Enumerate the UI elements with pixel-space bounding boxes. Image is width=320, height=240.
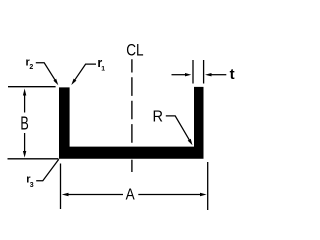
svg-text:2: 2: [29, 64, 33, 71]
dimension t: left tick: [192, 60, 194, 84]
arrow R: [188, 139, 193, 146]
dimension A: left extension line: [60, 164, 62, 210]
dimension t: right tick: [203, 60, 205, 84]
arrow r1: [71, 79, 76, 85]
dimension t: left line: [172, 74, 187, 76]
dimension B: bottom extension line: [8, 158, 59, 160]
dimension A: left arrow: [62, 193, 69, 196]
leader r2: [36, 63, 55, 80]
dimension t: right line: [211, 74, 227, 76]
svg-text:B: B: [20, 114, 28, 134]
svg-text:A: A: [126, 187, 135, 204]
dimension B: down arrow: [23, 151, 26, 158]
channel cross-section (U profile): [59, 87, 204, 159]
dimension A: right extension line: [207, 162, 209, 210]
svg-text:3: 3: [30, 182, 34, 189]
centerline dash below web: [131, 160, 133, 172]
dimension A: right arrow: [200, 193, 207, 196]
svg-text:CL: CL: [126, 41, 144, 60]
dimension B: top extension line: [8, 86, 56, 88]
svg-text:1: 1: [101, 65, 105, 72]
dimension B: up arrow: [23, 89, 26, 96]
leader r1: [75, 64, 96, 80]
dimension t: right arrow: [205, 73, 212, 76]
leader R: [166, 116, 190, 140]
dimension A: right line segment: [138, 194, 201, 196]
leader r3: [36, 159, 59, 181]
svg-text:t: t: [230, 66, 235, 83]
centerline dashed vertical: [131, 59, 133, 146]
arrow r2: [53, 79, 58, 85]
dimension t: left arrow: [185, 73, 191, 76]
dimension A: left line segment: [67, 194, 123, 196]
svg-text:R: R: [152, 108, 163, 125]
dimension B: upper line segment: [24, 94, 26, 113]
dimension B: lower line segment: [24, 133, 26, 152]
